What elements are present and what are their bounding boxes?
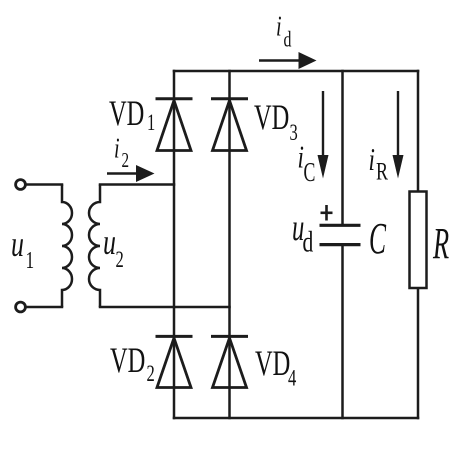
svg-text:C: C bbox=[369, 214, 387, 263]
terminal top-left bbox=[16, 180, 26, 190]
wire primary bottom lead bbox=[26, 306, 63, 309]
inductor primary winding bbox=[62, 185, 72, 308]
svg-text:i: i bbox=[114, 133, 120, 164]
wire secondary bottom to bridge node B bbox=[100, 306, 230, 309]
svg-text:u: u bbox=[11, 224, 24, 264]
terminal bottom-left bbox=[16, 302, 26, 312]
resistor R bbox=[410, 192, 427, 289]
svg-text:u: u bbox=[103, 222, 116, 262]
wire primary top lead bbox=[26, 183, 63, 186]
label i2 bbox=[114, 133, 129, 171]
svg-text:R: R bbox=[432, 219, 449, 268]
svg-text:i: i bbox=[369, 142, 375, 178]
label ud bbox=[292, 206, 313, 259]
wire resistor branch lower bbox=[417, 288, 420, 418]
svg-text:VD: VD bbox=[255, 343, 290, 383]
svg-text:C: C bbox=[304, 157, 316, 187]
svg-text:4: 4 bbox=[288, 366, 296, 391]
arrow i2 bbox=[107, 165, 155, 182]
svg-text:1: 1 bbox=[26, 246, 35, 274]
label iR bbox=[369, 142, 389, 185]
svg-text:VD: VD bbox=[109, 93, 144, 133]
label VD2 bbox=[110, 340, 155, 386]
wire top bus bbox=[174, 70, 418, 73]
svg-text:d: d bbox=[303, 225, 314, 258]
svg-text:R: R bbox=[376, 158, 388, 186]
svg-text:d: d bbox=[284, 28, 292, 52]
label id bbox=[276, 11, 292, 52]
inductor secondary winding bbox=[89, 185, 100, 308]
svg-text:2: 2 bbox=[147, 361, 155, 386]
svg-text:VD: VD bbox=[110, 340, 145, 380]
label iC bbox=[298, 140, 316, 187]
svg-text:2: 2 bbox=[116, 247, 124, 272]
wire right bridge leg (VD3/VD4) bbox=[228, 71, 231, 418]
label VD4 bbox=[255, 343, 296, 391]
label u2 bbox=[103, 222, 124, 273]
svg-text:i: i bbox=[276, 11, 282, 42]
arrow iR bbox=[393, 91, 404, 179]
wire capacitor branch upper bbox=[341, 71, 344, 224]
svg-text:VD: VD bbox=[254, 97, 289, 137]
capacitor C plates bbox=[320, 225, 361, 244]
wire secondary top to bridge node A bbox=[100, 183, 174, 186]
diode VD2 bbox=[156, 336, 193, 387]
diode VD3 bbox=[211, 99, 248, 151]
label u1 bbox=[11, 224, 34, 274]
label VD3 bbox=[254, 97, 298, 145]
wire bottom bus bbox=[174, 417, 418, 420]
wire left bridge leg (VD1/VD2) bbox=[173, 71, 176, 418]
svg-text:1: 1 bbox=[147, 110, 155, 135]
arrow id bbox=[259, 52, 317, 69]
svg-text:2: 2 bbox=[122, 149, 130, 172]
diode VD1 bbox=[156, 99, 193, 151]
plus sign polarity bbox=[321, 205, 333, 221]
wire resistor branch upper bbox=[417, 71, 420, 192]
arrow iC bbox=[318, 91, 329, 179]
diode VD4 bbox=[211, 336, 248, 387]
svg-text:3: 3 bbox=[290, 120, 298, 145]
label VD1 bbox=[109, 93, 155, 135]
wire capacitor branch lower bbox=[341, 246, 344, 418]
